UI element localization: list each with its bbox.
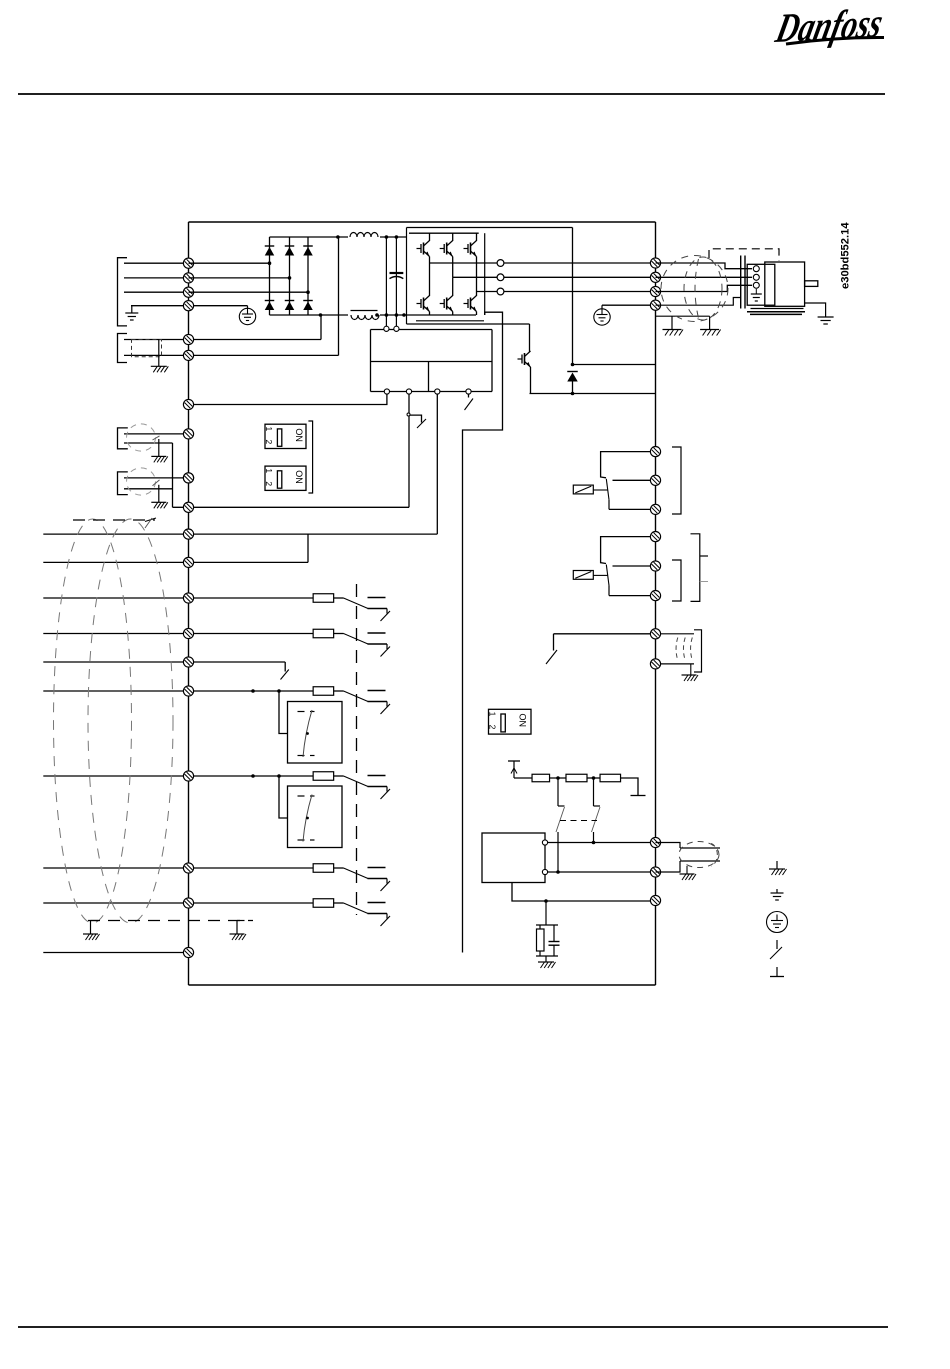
svg-text:1: 1	[487, 712, 497, 717]
svg-text:ON: ON	[294, 470, 304, 484]
svg-text:2: 2	[264, 481, 274, 486]
svg-text:e30bd552.14: e30bd552.14	[840, 222, 852, 289]
svg-text:2: 2	[487, 725, 497, 730]
svg-text:ON: ON	[517, 714, 527, 728]
svg-text:1: 1	[264, 468, 274, 473]
svg-text:1: 1	[264, 427, 274, 432]
svg-text:2: 2	[264, 440, 274, 445]
svg-text:ON: ON	[294, 428, 304, 442]
